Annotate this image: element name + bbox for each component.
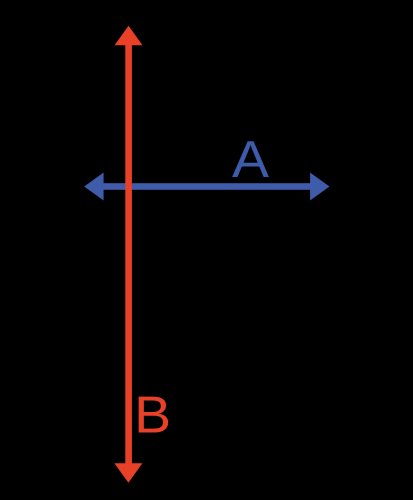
vector A (blue horizontal double arrow) — [84, 173, 329, 201]
wire B shaft — [125, 40, 132, 468]
vector B (red vertical double arrow) — [114, 26, 142, 483]
arrowhead A left — [84, 173, 103, 201]
svg-text:B: B — [134, 386, 171, 444]
arrowhead B top — [115, 26, 143, 45]
arrowhead B bottom — [114, 463, 142, 483]
arrowhead A right — [310, 173, 329, 201]
svg-text:A: A — [232, 131, 269, 189]
wire A shaft — [98, 183, 316, 190]
